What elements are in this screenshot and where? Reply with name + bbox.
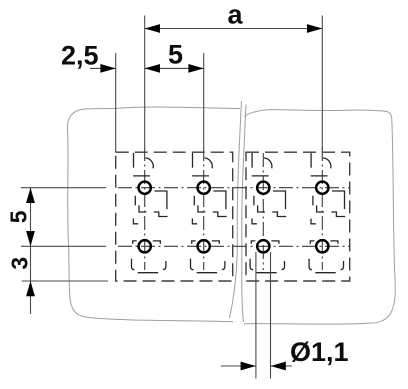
vertical centerlines through hole columns [145,147,323,270]
drill hole A1 [139,182,151,194]
footprint details: left block bottom row [132,241,166,273]
board right: broken-edge break line (left side) [242,105,246,323]
drill hole A4 [316,182,328,194]
board outline right (PCB broken-out view) [244,110,395,325]
drill hole A3 [257,182,269,194]
dimension 2,5 : line and arrow [90,67,116,69]
dimension 3 (left) : outside arrow [26,281,35,296]
dimension 5 (top) : line and arrows [145,67,204,69]
dimension 5/3 (left) : extension lines [21,188,108,281]
dimension Ø1,1 : extension lines from hole B3 [256,252,271,379]
svg-text:5: 5 [168,40,183,70]
svg-text:3: 3 [7,257,33,270]
footprint details: right block top row [252,153,287,224]
dimension Ø1,1 : lines and arrows [221,365,256,367]
board outline left (PCB broken-out view) [68,107,241,322]
drill hole B3 [257,240,269,252]
horizontal centerlines through hole rows [118,188,350,247]
drill hole A2 [198,182,210,194]
footprint details: left block top row [133,153,168,224]
dimension a : line [145,28,323,30]
drill hole B2 [198,240,210,252]
dimension a : extension lines [116,16,323,153]
svg-text:2,5: 2,5 [61,41,99,71]
board left: broken-edge break line (right side) [230,101,242,318]
dimension 5 (left) : line and arrows [30,188,32,314]
drill hole B1 [139,240,151,252]
footprint details: right block bottom row [250,241,284,273]
svg-text:a: a [228,0,244,30]
drill hole B4 [316,240,328,252]
dashed component outline box, right block [246,152,350,281]
svg-text:Ø1,1: Ø1,1 [290,337,349,367]
svg-text:5: 5 [5,210,31,223]
dashed component outline box, left block [116,152,233,281]
